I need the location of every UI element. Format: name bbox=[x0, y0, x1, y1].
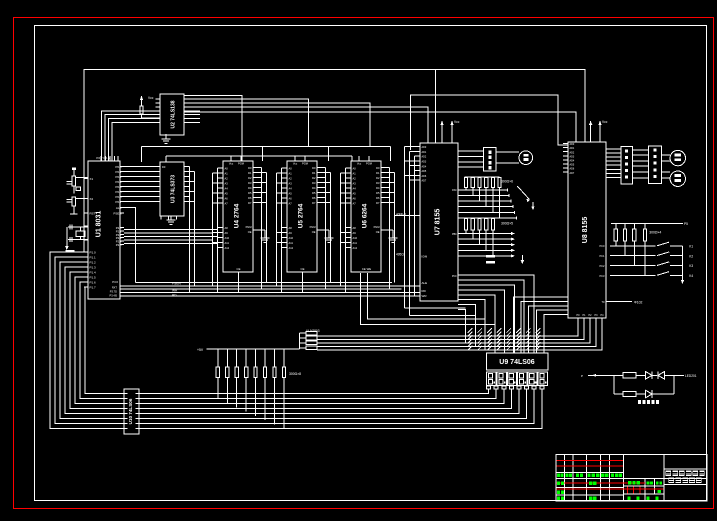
buffer U10 74LS06 bbox=[124, 389, 139, 434]
svg-text:A1: A1 bbox=[289, 172, 293, 176]
svg-text:D0: D0 bbox=[312, 166, 316, 170]
svg-text:A6: A6 bbox=[225, 197, 229, 201]
svg-text:D5: D5 bbox=[376, 191, 380, 195]
wire pull-up rail for key switches bbox=[611, 222, 688, 226]
svg-text:AD6: AD6 bbox=[570, 168, 575, 171]
svg-text:A9: A9 bbox=[289, 231, 293, 235]
buffer U9 74LS06 bbox=[486, 353, 548, 370]
svg-text:PGM: PGM bbox=[374, 225, 380, 229]
wire U1 P2 port rows to U4 address verticals bbox=[124, 230, 218, 244]
svg-text:A3: A3 bbox=[353, 182, 357, 186]
power VCC tap for U1 pull-up bbox=[72, 167, 76, 176]
capacitor C1 near R1 bbox=[67, 181, 73, 184]
svg-text:D2: D2 bbox=[248, 176, 252, 180]
wire driver to display unit bbox=[632, 150, 648, 178]
resistor network RP2 (5x) right of U7 bbox=[465, 218, 495, 230]
svg-text:AD0: AD0 bbox=[570, 143, 575, 146]
svg-text:K1: K1 bbox=[689, 245, 693, 249]
svg-text:X1: X1 bbox=[90, 177, 94, 181]
svg-text:PC0: PC0 bbox=[452, 275, 457, 278]
svg-text:U1 8031: U1 8031 bbox=[96, 211, 103, 238]
latch U3 74LS373 bbox=[156, 162, 188, 216]
svg-text:CE: CE bbox=[301, 267, 305, 271]
svg-text:CE WE: CE WE bbox=[362, 267, 371, 271]
svg-text:AD7: AD7 bbox=[422, 180, 427, 183]
svg-text:A5: A5 bbox=[289, 192, 293, 196]
svg-text:P0.6: P0.6 bbox=[115, 195, 122, 199]
switch K2 bbox=[610, 252, 693, 258]
resistor R2b second pull-up bbox=[70, 197, 78, 214]
svg-text:ALE: ALE bbox=[422, 281, 428, 285]
wire input to indicator branch bbox=[581, 374, 614, 378]
svg-text:A4: A4 bbox=[225, 187, 229, 191]
wire U2 input lines down to U1 top pins bbox=[102, 111, 161, 161]
title block green header texts bbox=[557, 473, 622, 477]
wire ALE from U1 down to bottom bus bbox=[124, 208, 136, 283]
resistor R16 bottom branch bbox=[614, 391, 646, 396]
power VCC arrow above R2 bbox=[140, 96, 154, 106]
svg-text:A5: A5 bbox=[353, 192, 357, 196]
resistor R6 key pull-up bbox=[644, 223, 647, 275]
svg-text:OE: OE bbox=[376, 230, 380, 234]
ground arrow of crystal bbox=[65, 246, 69, 250]
svg-text:PGM: PGM bbox=[366, 162, 372, 166]
svg-text:A4: A4 bbox=[353, 187, 357, 191]
svg-text:A6: A6 bbox=[289, 197, 293, 201]
svg-text:A1: A1 bbox=[353, 172, 357, 176]
resistor network RP1 (6x) right of U7 bbox=[465, 177, 502, 188]
svg-text:A0: A0 bbox=[225, 167, 229, 171]
svg-text:A0: A0 bbox=[289, 167, 293, 171]
svg-text:D6: D6 bbox=[248, 196, 252, 200]
svg-text:D0: D0 bbox=[376, 166, 380, 170]
ground for EPROM U4 2764 bbox=[261, 238, 270, 242]
svg-text:D6: D6 bbox=[312, 196, 316, 200]
svg-text:D0: D0 bbox=[162, 165, 166, 169]
svg-text:U10 74LS06: U10 74LS06 bbox=[128, 398, 133, 424]
speaker LS1 indicator circle right of driver bbox=[519, 151, 533, 165]
resistor R4 key pull-up bbox=[624, 223, 627, 255]
svg-text:P1.5: P1.5 bbox=[90, 276, 97, 280]
svg-text:PSEN: PSEN bbox=[172, 281, 181, 285]
wire U7 address verticals to bus bbox=[405, 147, 416, 316]
svg-text:D3: D3 bbox=[248, 181, 252, 185]
svg-text:A4: A4 bbox=[289, 187, 293, 191]
display unit box U13 right of driver bbox=[649, 146, 662, 184]
svg-text:P0.1: P0.1 bbox=[115, 170, 122, 174]
junction lattice crossing above U9 bbox=[468, 328, 541, 350]
wire A8 line (410.5,95)-(557.8,95) dropping to U7 left bus and U8 top bbox=[411, 95, 569, 150]
svg-text:A8: A8 bbox=[353, 226, 357, 230]
svg-text:300Ω×8: 300Ω×8 bbox=[289, 372, 301, 376]
svg-text:U3 74LS373: U3 74LS373 bbox=[171, 175, 177, 203]
svg-text:PC0: PC0 bbox=[599, 244, 605, 248]
svg-text:A12: A12 bbox=[353, 246, 358, 250]
svg-text:PGM: PGM bbox=[302, 162, 308, 166]
svg-text:P5: P5 bbox=[684, 222, 688, 226]
switch arrow keypad indicator bbox=[517, 186, 534, 210]
svg-text:D7: D7 bbox=[312, 201, 316, 205]
svg-text:D7: D7 bbox=[248, 201, 252, 205]
wire chip-select CS1 from U2 dropping at x=308.5 bbox=[184, 99, 309, 146]
digit display modules below U9 bbox=[487, 372, 548, 386]
ground for RAM U6 6264 bbox=[389, 238, 398, 242]
title block red revision lines bbox=[557, 460, 664, 493]
svg-text:AD2: AD2 bbox=[570, 151, 575, 154]
capacitor C3 reset to RST pin bbox=[66, 250, 89, 253]
title block drawing name text bbox=[666, 470, 705, 483]
svg-text:P2.7 P2.6: P2.7 P2.6 bbox=[96, 156, 110, 160]
svg-text:PC1: PC1 bbox=[599, 254, 605, 258]
wire latched address bus right of U3 bbox=[188, 167, 195, 293]
svg-text:A0: A0 bbox=[353, 167, 357, 171]
svg-text:A10: A10 bbox=[353, 236, 358, 240]
svg-text:A11: A11 bbox=[289, 241, 294, 245]
switch K1 bbox=[610, 242, 693, 248]
svg-text:P3.7D: P3.7D bbox=[110, 289, 117, 293]
wire indicator output bbox=[674, 374, 697, 378]
svg-text:P1.4: P1.4 bbox=[90, 271, 97, 275]
switch K4 bbox=[610, 272, 693, 278]
svg-text:D2: D2 bbox=[376, 176, 380, 180]
svg-text:U2 74LS138: U2 74LS138 bbox=[171, 100, 177, 128]
svg-text:U6 6264: U6 6264 bbox=[362, 203, 369, 228]
svg-text:RD: RD bbox=[172, 293, 177, 297]
wire horizontal control/address bus under memory chips bbox=[124, 283, 420, 297]
svg-text:AD2: AD2 bbox=[422, 156, 427, 159]
resistor R2 pull-up at U2 input bbox=[140, 106, 160, 118]
capacitor C2 near X2 bbox=[67, 198, 89, 202]
svg-text:A11: A11 bbox=[353, 241, 358, 245]
svg-text:A7: A7 bbox=[353, 202, 357, 206]
svg-text:OE: OE bbox=[312, 230, 316, 234]
wire U6 control pins looping under U7 bbox=[360, 273, 495, 325]
svg-text:A3: A3 bbox=[289, 182, 293, 186]
microcontroller U1 8031 bbox=[84, 156, 124, 299]
value label 300 ohm RP1 bbox=[501, 180, 513, 184]
svg-text:U7 8155: U7 8155 bbox=[435, 209, 442, 236]
svg-text:P3.4/5: P3.4/5 bbox=[110, 293, 118, 297]
resistor row R7-R14 (8x 300ohm) bbox=[216, 349, 285, 429]
svg-text:D3: D3 bbox=[312, 181, 316, 185]
svg-text:A9: A9 bbox=[225, 231, 229, 235]
svg-text:A5: A5 bbox=[225, 192, 229, 196]
latch U3 bottom pins bbox=[161, 216, 176, 220]
title block outer frame bbox=[556, 455, 707, 501]
svg-text:K3: K3 bbox=[689, 264, 693, 268]
svg-text:Vcc: Vcc bbox=[229, 162, 234, 166]
svg-text:AD1: AD1 bbox=[422, 151, 427, 154]
svg-text:AD6: AD6 bbox=[422, 175, 427, 178]
svg-text:PGM: PGM bbox=[310, 225, 316, 229]
svg-text:A8: A8 bbox=[289, 226, 293, 230]
svg-text:PA0: PA0 bbox=[452, 189, 457, 192]
svg-text:ALE: ALE bbox=[116, 206, 122, 210]
svg-text:D6: D6 bbox=[376, 196, 380, 200]
wire data-bus verticals right of EPROM U5 2764 bbox=[321, 168, 331, 290]
svg-text:A11: A11 bbox=[225, 241, 230, 245]
svg-text:A3: A3 bbox=[225, 182, 229, 186]
value label 300 ohm RP2 bbox=[501, 222, 513, 226]
driver array ULN2803 diode stack bbox=[299, 329, 319, 350]
svg-text:P1.6: P1.6 bbox=[90, 281, 97, 285]
wire U7 PB row lines with arrows bbox=[462, 230, 515, 258]
svg-text:P1.2: P1.2 bbox=[90, 261, 97, 265]
wire address-bus verticals left of EPROM U4 2764 bbox=[213, 168, 220, 293]
wire U8 left lower pins down to U9 top pins bbox=[514, 297, 564, 353]
svg-text:P0.4: P0.4 bbox=[115, 185, 122, 189]
wire driver box to speaker bbox=[496, 152, 519, 163]
svg-text:PC3: PC3 bbox=[599, 274, 605, 278]
ground below U2 bbox=[162, 134, 171, 143]
driver U11 segment driver box right of U7 bbox=[484, 148, 496, 172]
wire U7 PA row lines to keypad columns bbox=[462, 187, 516, 219]
peripheral U8 8155 bbox=[563, 142, 610, 322]
connector bars below RP2 bbox=[486, 255, 495, 264]
svg-text:X2: X2 bbox=[90, 197, 94, 201]
svg-text:D5: D5 bbox=[248, 191, 252, 195]
EPROM U4 2764 bbox=[219, 156, 265, 293]
title block green row texts bbox=[557, 482, 597, 501]
svg-text:Vcc: Vcc bbox=[602, 120, 608, 124]
svg-text:WR: WR bbox=[172, 289, 178, 293]
svg-text:U4 2764: U4 2764 bbox=[234, 203, 241, 228]
value label 300x8 bbox=[289, 372, 301, 376]
EPROM U5 2764 bbox=[283, 156, 329, 293]
wire display unit to lamps bbox=[662, 155, 671, 178]
svg-text:D2: D2 bbox=[312, 176, 316, 180]
indicator lamp DS2 bbox=[670, 171, 685, 186]
svg-text:D5: D5 bbox=[312, 191, 316, 195]
svg-text:A7: A7 bbox=[289, 202, 293, 206]
wire chip-select CS0 from U2 to U4 top pin bbox=[184, 96, 242, 162]
wire address-bus verticals left of RAM U6 6264 bbox=[341, 168, 348, 293]
ground arrow for switches bbox=[681, 246, 685, 284]
svg-text:AD7: AD7 bbox=[570, 172, 575, 175]
svg-text:495Ω: 495Ω bbox=[396, 253, 404, 257]
svg-text:Vcc: Vcc bbox=[357, 162, 362, 166]
resistor R15 top branch bbox=[614, 373, 646, 378]
svg-text:P0.0: P0.0 bbox=[115, 165, 122, 169]
svg-text:Vcc: Vcc bbox=[454, 120, 460, 124]
svg-text:P3.6: P3.6 bbox=[112, 280, 118, 284]
peripheral U7 8155 bbox=[395, 143, 462, 310]
wire horizontal net y=146.3 linking memory chip top pins bbox=[141, 146, 390, 162]
crystal Y1 with load capacitors bbox=[68, 224, 88, 242]
svg-text:D1: D1 bbox=[248, 171, 252, 175]
svg-text:A1: A1 bbox=[225, 172, 229, 176]
svg-text:AD5: AD5 bbox=[570, 164, 575, 167]
svg-text:P: P bbox=[581, 374, 583, 378]
svg-text:CE: CE bbox=[237, 267, 241, 271]
value label 300 ohm keys bbox=[649, 231, 661, 235]
svg-text:IO/M: IO/M bbox=[422, 255, 428, 259]
diode D1 bbox=[646, 372, 658, 380]
svg-text:A12: A12 bbox=[225, 246, 230, 250]
title block left table grid bbox=[556, 455, 623, 501]
display driver box U12 right of U8 bbox=[621, 147, 632, 185]
svg-text:U8 8155: U8 8155 bbox=[582, 217, 589, 244]
svg-text:PC2: PC2 bbox=[599, 264, 605, 268]
RAM U6 6264 bbox=[347, 156, 393, 272]
svg-text:P0.2: P0.2 bbox=[115, 175, 122, 179]
svg-text:P1.7: P1.7 bbox=[90, 286, 97, 290]
svg-text:PGM: PGM bbox=[246, 225, 252, 229]
svg-text:A9: A9 bbox=[353, 231, 357, 235]
svg-text:D1: D1 bbox=[312, 171, 316, 175]
svg-text:A7: A7 bbox=[225, 202, 229, 206]
svg-text:A2: A2 bbox=[353, 177, 357, 181]
wire chip-select CS3 from U2 to U7 8155 top bbox=[184, 107, 428, 143]
svg-text:PGM: PGM bbox=[238, 162, 244, 166]
svg-text:300Ω×4: 300Ω×4 bbox=[649, 231, 661, 235]
wire data-bus verticals right of EPROM U4 2764 bbox=[257, 168, 267, 290]
svg-text:AD3: AD3 bbox=[570, 155, 575, 158]
connector J1 pin squares bbox=[487, 386, 544, 390]
svg-text:A12: A12 bbox=[289, 246, 294, 250]
svg-text:U5 2764: U5 2764 bbox=[298, 203, 305, 228]
svg-text:LED201: LED201 bbox=[685, 374, 697, 378]
svg-text:D4: D4 bbox=[376, 186, 380, 190]
wire P0 bus U1 to U3 (8 lines) bbox=[124, 167, 156, 202]
svg-text:D1: D1 bbox=[376, 171, 380, 175]
svg-text:Φ102: Φ102 bbox=[634, 301, 642, 305]
svg-text:A2: A2 bbox=[225, 177, 229, 181]
svg-text:AD4: AD4 bbox=[570, 160, 575, 163]
svg-text:RST: RST bbox=[90, 212, 96, 216]
ground below U3 bbox=[167, 216, 176, 224]
resistor R1 pull-up at U1 X1 bbox=[72, 176, 76, 194]
wire T0 output with label bbox=[606, 301, 642, 305]
svg-text:RXT: RXT bbox=[112, 285, 118, 289]
svg-text:AD0: AD0 bbox=[422, 146, 427, 149]
svg-text:P1.3: P1.3 bbox=[90, 266, 97, 270]
svg-text:AD3: AD3 bbox=[422, 161, 427, 164]
wire fan from U7 lower-right pins down to U9 bbox=[461, 275, 534, 353]
power VCC arrows above U7 bbox=[440, 120, 460, 143]
wire chip-select CS2 from U2 dropping at x=370 bbox=[184, 103, 370, 146]
svg-text:A10: A10 bbox=[225, 236, 230, 240]
wire U8 to display driver bbox=[610, 149, 621, 178]
svg-text:WR: WR bbox=[422, 294, 428, 298]
decoder U2 74LS138 bbox=[156, 94, 201, 135]
wire crystal common to ground bbox=[66, 227, 68, 246]
ground arrow below keypad area bbox=[521, 255, 525, 264]
indicator lamp DS1 bbox=[670, 150, 685, 165]
wire U8 PA bottom pins to long lines toward U9/ULN bbox=[317, 322, 602, 350]
wire U7 to driver box bbox=[462, 151, 484, 167]
wire under-runs from left bus to fan verticals bbox=[405, 308, 476, 315]
svg-text:Vcc: Vcc bbox=[148, 96, 154, 100]
svg-text:U9 74LS06: U9 74LS06 bbox=[499, 359, 535, 366]
svg-text:OE: OE bbox=[248, 230, 252, 234]
wire +5V rail feeding resistor row bbox=[197, 348, 299, 352]
svg-text:D4: D4 bbox=[248, 186, 252, 190]
wire chip-select CS4 from U2 to U8 8155 top bbox=[184, 112, 576, 142]
svg-text:D0: D0 bbox=[248, 166, 252, 170]
svg-text:K4: K4 bbox=[689, 274, 693, 278]
svg-text:AD1: AD1 bbox=[570, 147, 575, 150]
net label PSEN WR RD on bus bbox=[172, 281, 181, 297]
switch K3 bbox=[610, 262, 693, 268]
net label left of U7 bbox=[396, 213, 407, 257]
svg-text:P1.1: P1.1 bbox=[90, 256, 97, 260]
svg-text:300Ω×6: 300Ω×6 bbox=[501, 180, 513, 184]
svg-text:300Ω×5: 300Ω×5 bbox=[501, 222, 513, 226]
svg-text:Vcc: Vcc bbox=[293, 162, 298, 166]
svg-text:A6: A6 bbox=[353, 197, 357, 201]
svg-text:P0.3: P0.3 bbox=[115, 180, 122, 184]
component box near X1 bbox=[76, 178, 88, 191]
wire horizontal net y=156 over memory chips bbox=[166, 156, 352, 162]
title block middle green texts bbox=[627, 481, 662, 500]
svg-text:P0.5: P0.5 bbox=[115, 190, 122, 194]
svg-text:A8: A8 bbox=[225, 226, 229, 230]
label for diodes bbox=[638, 400, 659, 404]
ground for EPROM U5 2764 bbox=[325, 238, 334, 242]
svg-text:A10: A10 bbox=[289, 236, 294, 240]
resistor R3 key pull-up bbox=[614, 223, 617, 246]
svg-text:AD5: AD5 bbox=[422, 170, 427, 173]
wire ULN outputs long horizontal lines bbox=[317, 336, 602, 350]
wire top bus line (84,69.5)-(585,69.5) with drops to U7 and U8 bbox=[84, 70, 585, 253]
svg-text:A2: A2 bbox=[289, 177, 293, 181]
svg-text:K2: K2 bbox=[689, 254, 693, 258]
svg-text:D4: D4 bbox=[312, 186, 316, 190]
svg-text:D7: D7 bbox=[376, 201, 380, 205]
wire harness U1 P1 port to bottom bus and connector bbox=[50, 252, 542, 429]
svg-text:PB0: PB0 bbox=[452, 233, 457, 236]
svg-text:D3: D3 bbox=[376, 181, 380, 185]
svg-text:P0.7: P0.7 bbox=[115, 200, 122, 204]
resistor R5 key pull-up bbox=[633, 223, 636, 265]
wire data-bus verticals right of RAM U6 6264 bbox=[385, 168, 395, 290]
wire address-bus verticals left of EPROM U5 2764 bbox=[277, 168, 284, 293]
branch node verticals bbox=[614, 375, 674, 394]
svg-text:P2.5: P2.5 bbox=[116, 243, 122, 247]
svg-text:P1.0: P1.0 bbox=[90, 251, 97, 255]
diode D2 reversed bbox=[658, 372, 674, 380]
svg-text:AD4: AD4 bbox=[422, 165, 427, 168]
power VCC arrows above U8 bbox=[589, 120, 608, 142]
svg-text:PSEN: PSEN bbox=[113, 212, 121, 216]
svg-text:40MHz: 40MHz bbox=[396, 213, 407, 217]
title block middle cells bbox=[623, 455, 707, 501]
diode D3 bbox=[646, 390, 675, 398]
svg-text:+5V: +5V bbox=[197, 348, 204, 352]
